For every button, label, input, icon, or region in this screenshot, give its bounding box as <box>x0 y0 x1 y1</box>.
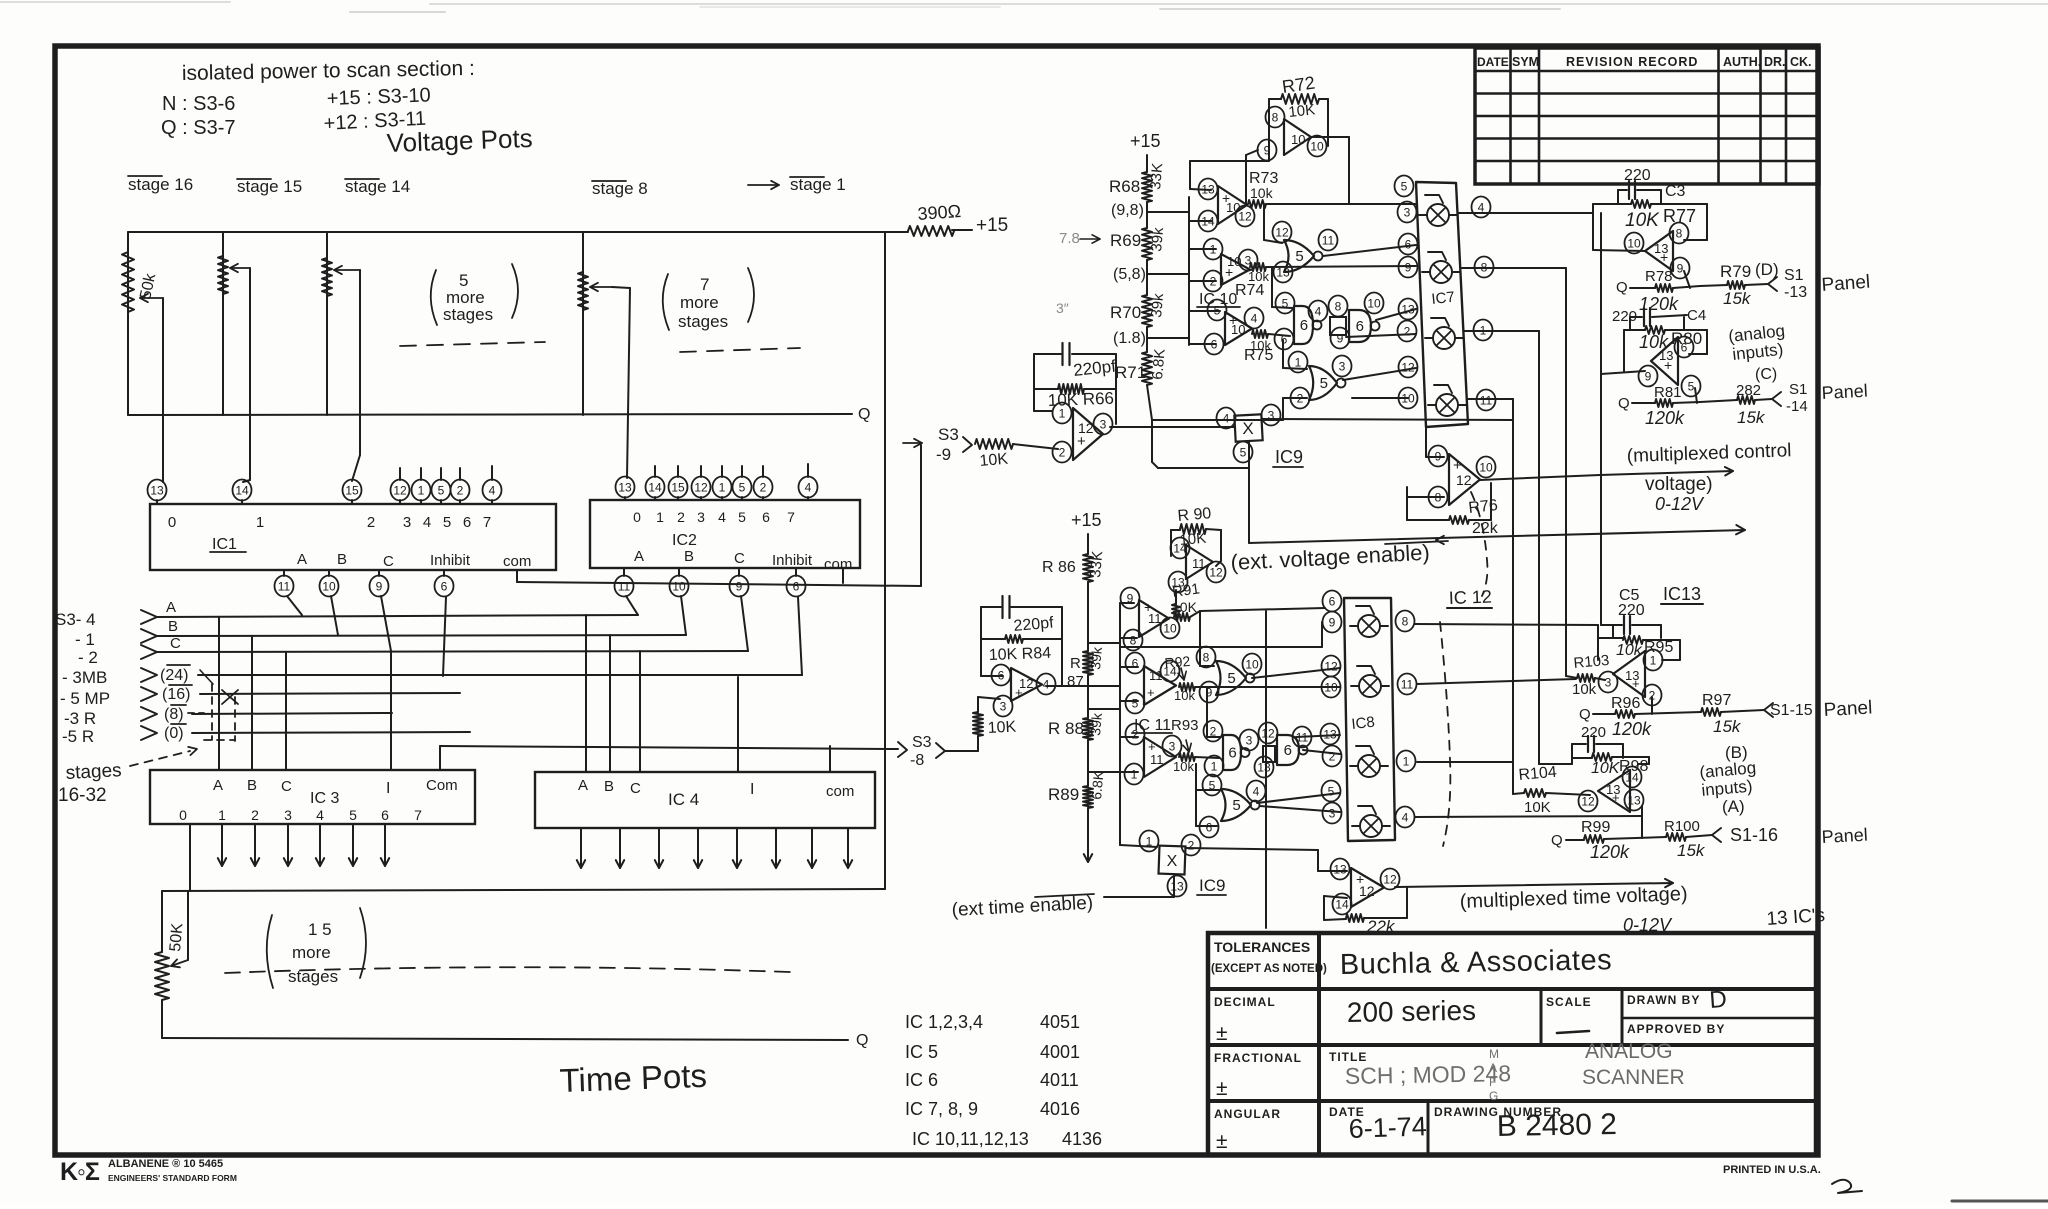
IC1 top pins <box>148 480 167 501</box>
IC9 switch X upper <box>1234 414 1262 441</box>
svg-text:(0): (0) <box>164 725 184 742</box>
svg-text:10K: 10K <box>1625 210 1660 231</box>
svg-text:R96: R96 <box>1611 695 1640 712</box>
svg-text:R74: R74 <box>1235 282 1264 299</box>
svg-text:10k: 10k <box>1250 185 1274 201</box>
svg-text:1: 1 <box>1131 767 1138 781</box>
R71 chain to X loop <box>1151 420 1153 462</box>
svg-text:0: 0 <box>168 514 176 531</box>
svg-text:16-32: 16-32 <box>58 785 107 806</box>
svg-text:more: more <box>680 293 719 312</box>
svg-text:10: 10 <box>1367 296 1381 310</box>
svg-text:R 88: R 88 <box>1048 719 1084 738</box>
svg-text:10K R84: 10K R84 <box>989 645 1052 664</box>
svg-text:15k: 15k <box>1737 408 1766 427</box>
long vertical ext <box>1265 611 1267 928</box>
page mark 2 <box>1832 1180 1862 1193</box>
svg-text:+: + <box>1660 249 1668 265</box>
svg-text:IC 12: IC 12 <box>1448 587 1492 608</box>
bus B <box>157 635 686 636</box>
opamp 11 enable <box>1186 545 1213 579</box>
svg-text:9: 9 <box>1337 331 1344 345</box>
svg-text:ALBANENE ® 10 5465: ALBANENE ® 10 5465 <box>108 1158 223 1170</box>
svg-text:B: B <box>604 778 614 795</box>
NOR gate lower 2 <box>1221 789 1251 821</box>
svg-text:2: 2 <box>457 483 464 497</box>
title block grid <box>1208 987 1816 991</box>
nand out wires <box>1376 309 1416 320</box>
svg-text:12: 12 <box>1261 726 1275 740</box>
+15 top rail <box>128 231 908 233</box>
svg-text:7: 7 <box>483 514 491 531</box>
svg-text:12: 12 <box>694 480 708 494</box>
svg-text:9: 9 <box>1405 260 1412 274</box>
svg-text:7: 7 <box>414 807 422 823</box>
svg-text:(8): (8) <box>164 706 184 723</box>
svg-text:+: + <box>1612 790 1620 805</box>
svg-text:7.8: 7.8 <box>1059 230 1080 247</box>
resistor R72 <box>1269 98 1281 100</box>
svg-text:12: 12 <box>1324 659 1338 673</box>
svg-text:10: 10 <box>1245 657 1259 671</box>
pot stage8 <box>582 232 584 415</box>
svg-text:11: 11 <box>618 579 631 593</box>
opamp 11 first <box>1139 600 1169 637</box>
svg-text:C: C <box>734 550 745 567</box>
svg-text:4: 4 <box>1402 810 1409 824</box>
svg-text:(A): (A) <box>1722 797 1745 816</box>
svg-text:10K: 10K <box>1524 799 1551 816</box>
svg-text:10k: 10k <box>1174 688 1195 703</box>
IC4 output arrows <box>580 828 582 868</box>
pin13 drop <box>1641 806 1643 838</box>
svg-text:3: 3 <box>1169 739 1176 753</box>
opamp 13 A <box>1598 770 1630 812</box>
svg-text:10K: 10K <box>1591 760 1621 777</box>
svg-text:12: 12 <box>1209 565 1223 579</box>
svg-text:4: 4 <box>1223 411 1230 425</box>
svg-text:5: 5 <box>738 509 746 525</box>
svg-text:14: 14 <box>1625 770 1639 784</box>
svg-text:5: 5 <box>1240 445 1247 459</box>
svg-text:stages: stages <box>443 305 493 324</box>
svg-text:12: 12 <box>393 483 407 497</box>
svg-text:C4: C4 <box>1687 307 1706 324</box>
svg-text:11: 11 <box>1401 677 1414 691</box>
svg-text:10: 10 <box>1324 680 1338 694</box>
svg-text:Inhibit: Inhibit <box>430 552 471 569</box>
wire B to IC4 <box>609 635 611 772</box>
svg-text:3″: 3″ <box>1056 300 1069 316</box>
S3-9 riser <box>920 445 922 586</box>
svg-text:22k: 22k <box>1472 520 1499 537</box>
opamp 12 control out <box>1449 454 1480 505</box>
svg-text:9: 9 <box>736 579 743 593</box>
svg-text:I: I <box>750 781 754 798</box>
svg-text:DECIMAL: DECIMAL <box>1214 995 1276 1009</box>
wire IC2 com drop <box>884 232 886 889</box>
10K R84 resistor <box>981 638 1005 640</box>
x2 input wire <box>1120 845 1157 847</box>
svg-text:10: 10 <box>1310 139 1324 153</box>
wire 204 branch down <box>1600 213 1602 625</box>
time rail <box>162 889 885 891</box>
R87 <box>1083 651 1093 675</box>
wire third out <box>1195 757 1219 758</box>
svg-text:I: I <box>386 780 390 797</box>
svg-text:6: 6 <box>1284 742 1292 759</box>
nand lower outs <box>1303 750 1340 754</box>
svg-text:10: 10 <box>322 579 336 593</box>
svg-text:3: 3 <box>697 509 705 525</box>
svg-text:SCH ; MOD 248: SCH ; MOD 248 <box>1345 1060 1512 1089</box>
svg-text:PRINTED IN U.S.A.: PRINTED IN U.S.A. <box>1723 1164 1821 1176</box>
bus 24 <box>198 674 802 676</box>
svg-text:3: 3 <box>1339 359 1346 373</box>
pot stage14 <box>326 232 328 415</box>
svg-text:12: 12 <box>1238 209 1252 223</box>
svg-text:IC 1,2,3,4: IC 1,2,3,4 <box>905 1012 983 1032</box>
svg-text:IC1: IC1 <box>212 536 237 553</box>
svg-text:R: R <box>1070 655 1081 672</box>
gate l1 out <box>1252 668 1340 678</box>
enable line to right <box>1249 530 1745 543</box>
svg-text:6: 6 <box>793 579 800 593</box>
revision record table <box>1475 48 1819 184</box>
IC3 pin0 wire <box>189 824 191 891</box>
IC12 dashed pointer lower <box>1440 622 1450 846</box>
out resistor third <box>1179 753 1195 761</box>
svg-text:+15: +15 <box>976 215 1008 236</box>
IC4 com wire <box>829 746 831 772</box>
svg-text:14: 14 <box>1173 541 1187 555</box>
svg-text:S3: S3 <box>912 734 932 751</box>
svg-text:6: 6 <box>1300 317 1308 334</box>
svg-text:390Ω: 390Ω <box>917 201 962 224</box>
svg-text:IC8: IC8 <box>1351 714 1376 733</box>
svg-text:11: 11 <box>1192 556 1206 571</box>
svg-text:9: 9 <box>1127 591 1134 605</box>
svg-text:A: A <box>297 551 307 568</box>
IC12 dashed pointer upper <box>1471 492 1487 596</box>
R98 loop <box>1648 757 1650 764</box>
svg-text:IC 10,11,12,13: IC 10,11,12,13 <box>912 1129 1029 1149</box>
svg-text:10: 10 <box>1291 132 1305 147</box>
svg-text:4: 4 <box>1251 311 1258 325</box>
svg-text:-9: -9 <box>936 445 951 464</box>
svg-text:R78: R78 <box>1645 268 1673 285</box>
svg-text:9: 9 <box>1645 369 1652 383</box>
time com rail S3-8 <box>440 746 898 749</box>
wire box to pin6 <box>981 675 1003 677</box>
svg-text:10: 10 <box>1627 236 1641 250</box>
IC9 switch X lower <box>1159 846 1186 875</box>
C out resistor <box>1252 330 1268 338</box>
IC8 out wires <box>1415 624 1598 625</box>
svg-text:12: 12 <box>1275 225 1289 239</box>
svg-text:- 3MB: - 3MB <box>62 668 107 687</box>
svg-text:B: B <box>684 548 694 565</box>
svg-text:IC2: IC2 <box>672 532 697 549</box>
50K time pot <box>161 891 163 952</box>
svg-text:4: 4 <box>1315 304 1322 318</box>
svg-text:15k: 15k <box>1723 289 1752 308</box>
svg-text:D: D <box>1709 986 1728 1014</box>
svg-text:-3 R: -3 R <box>64 709 96 728</box>
svg-text:+: + <box>1632 676 1640 691</box>
svg-text:6: 6 <box>1405 237 1412 251</box>
R98 resistor <box>1572 757 1592 759</box>
svg-text:13: 13 <box>1323 727 1337 741</box>
svg-text:13: 13 <box>1401 302 1415 316</box>
wire 24 to IC4 I <box>737 677 739 772</box>
IC2 pin stubs <box>654 466 656 477</box>
IC1 box <box>150 504 556 570</box>
IC8 right pins <box>1396 611 1415 632</box>
svg-text:com: com <box>826 783 854 800</box>
buffer out <box>1311 136 1349 138</box>
R69 <box>1142 228 1152 260</box>
svg-text:10k: 10k <box>1173 759 1194 774</box>
svg-text:5: 5 <box>1214 303 1221 317</box>
opamp 13 C <box>1651 337 1678 385</box>
svg-text:R75: R75 <box>1244 347 1273 364</box>
svg-text:+15 : S3-10: +15 : S3-10 <box>326 84 431 110</box>
svg-text:7: 7 <box>787 509 795 525</box>
svg-text:220: 220 <box>1618 602 1645 619</box>
svg-text:A: A <box>213 777 223 794</box>
svg-text:9: 9 <box>376 579 383 593</box>
svg-text:R99: R99 <box>1581 819 1610 836</box>
svg-text:- 2: - 2 <box>78 648 98 667</box>
svg-text:R95: R95 <box>1644 639 1673 656</box>
R70 <box>1142 295 1152 327</box>
svg-text:APPROVED BY: APPROVED BY <box>1627 1022 1725 1036</box>
svg-text:1: 1 <box>1210 242 1217 256</box>
x marks <box>222 690 238 704</box>
svg-text:220: 220 <box>1624 167 1651 184</box>
svg-text:1: 1 <box>719 480 726 494</box>
wire to IC7 pin10 <box>1352 397 1408 399</box>
svg-text:G: G <box>1489 1089 1498 1103</box>
time pot bottom wire Q <box>162 1038 848 1040</box>
svg-text:14: 14 <box>1335 897 1349 911</box>
svg-text:5: 5 <box>1132 696 1139 710</box>
svg-text:14: 14 <box>235 483 249 497</box>
dashed continuation 2 <box>680 348 800 352</box>
wire R66 to pin1 <box>1034 410 1052 412</box>
IC7 box <box>1416 182 1468 427</box>
svg-text:3: 3 <box>1329 806 1336 820</box>
svg-text:S3: S3 <box>938 425 959 444</box>
svg-text:3: 3 <box>1404 205 1411 219</box>
svg-text:S3- 4: S3- 4 <box>55 610 96 629</box>
svg-text:10K: 10K <box>1288 101 1316 121</box>
tap3 lower <box>1088 771 1120 773</box>
svg-text:S1-16: S1-16 <box>1730 825 1778 845</box>
svg-text:IC 3: IC 3 <box>310 790 339 807</box>
svg-text:13: 13 <box>1171 575 1185 589</box>
chain bottom arrow <box>1087 808 1089 848</box>
svg-text:22k: 22k <box>1366 917 1396 936</box>
svg-text:13: 13 <box>1257 760 1271 774</box>
svg-text:5: 5 <box>1232 797 1240 814</box>
nor l2 outs <box>1257 793 1340 803</box>
wire C to IC4 <box>639 651 641 772</box>
svg-text:4: 4 <box>316 807 324 823</box>
svg-text:15k: 15k <box>1713 717 1742 736</box>
IC3 com wire <box>439 746 441 770</box>
svg-text:33K: 33K <box>1087 550 1106 578</box>
svg-text:5: 5 <box>1227 670 1235 687</box>
wire stage8 wiper <box>612 287 630 288</box>
svg-text:13: 13 <box>1201 182 1215 196</box>
svg-text:6: 6 <box>1681 340 1688 354</box>
pot stage15 <box>222 232 224 415</box>
svg-text:Q: Q <box>1616 279 1628 296</box>
opamp 12 time sum <box>1011 668 1042 701</box>
svg-text:0-12V: 0-12V <box>1655 494 1705 514</box>
svg-text:6.8K: 6.8K <box>1149 348 1169 380</box>
svg-text:±: ± <box>1216 1130 1228 1153</box>
IC7 output wires <box>1458 212 1593 214</box>
IC2 com wire <box>842 568 844 583</box>
svg-text:12: 12 <box>1078 420 1094 436</box>
opamp 12 voltage sum <box>1073 408 1103 460</box>
R66 loop verticals <box>1033 354 1035 411</box>
svg-text:8: 8 <box>1130 633 1137 647</box>
tap1 lower <box>1088 642 1120 644</box>
title block outer <box>1208 933 1816 1155</box>
voltage com rail <box>517 582 921 586</box>
svg-text:X: X <box>1242 419 1253 438</box>
svg-text:4016: 4016 <box>1040 1099 1080 1119</box>
IC7 switches <box>1427 204 1449 226</box>
svg-text:A: A <box>166 599 176 616</box>
wire stage14 wiper <box>359 270 361 455</box>
svg-text:2: 2 <box>1329 749 1336 763</box>
svg-text:11: 11 <box>1480 393 1493 407</box>
opamp out to bus <box>1062 685 1120 687</box>
svg-text:SYM: SYM <box>1512 55 1539 69</box>
bus C <box>157 651 748 652</box>
svg-text:IC 4: IC 4 <box>668 790 699 809</box>
svg-text:6: 6 <box>463 514 471 531</box>
capacitor 220pf upper <box>1034 353 1061 355</box>
svg-text:1: 1 <box>256 514 264 531</box>
svg-text:C: C <box>383 553 394 570</box>
svg-text:N : S3-6: N : S3-6 <box>162 93 235 115</box>
svg-text:4: 4 <box>489 483 496 497</box>
svg-text:4: 4 <box>805 480 812 494</box>
svg-text:33K: 33K <box>1147 162 1166 190</box>
svg-text:+15: +15 <box>1130 131 1161 151</box>
svg-text:Time Pots: Time Pots <box>559 1057 708 1099</box>
opamp 11 second <box>1144 666 1176 705</box>
NOR gate upper 2 <box>1309 366 1337 400</box>
svg-text:IC7: IC7 <box>1431 289 1456 308</box>
svg-text:A: A <box>634 548 644 565</box>
svg-text:IC13: IC13 <box>1663 584 1701 604</box>
svg-text:15: 15 <box>345 483 359 497</box>
svg-text:10K R66: 10K R66 <box>1047 389 1114 410</box>
IC1 bottom pins <box>275 576 294 597</box>
bus 8 <box>192 713 392 714</box>
pin5 drop <box>1695 388 1697 403</box>
svg-text:8: 8 <box>1676 226 1683 240</box>
svg-text:3: 3 <box>1100 417 1107 431</box>
svg-text:10k: 10k <box>1572 681 1597 698</box>
wire ic8 pin9 link <box>1321 622 1323 647</box>
svg-text:1: 1 <box>418 483 425 497</box>
wire 13 down R91 <box>1175 590 1177 604</box>
IC1 pin stubs <box>399 468 401 480</box>
svg-text:com: com <box>824 556 852 573</box>
x2 pin13 wire <box>1173 876 1175 897</box>
C5 cap box <box>1613 624 1622 626</box>
svg-text:DR.: DR. <box>1764 55 1786 69</box>
opamp IC10 C <box>1225 312 1252 345</box>
svg-text:120k: 120k <box>1590 842 1630 862</box>
svg-text:R93: R93 <box>1171 717 1199 734</box>
R88 <box>1083 718 1093 740</box>
wire B out <box>1266 266 1416 267</box>
opamp 13 D <box>1645 231 1673 271</box>
R71 <box>1142 352 1152 385</box>
multiplexed control voltage arrow <box>1480 475 1600 480</box>
svg-text:R68: R68 <box>1109 177 1140 196</box>
svg-text:R 90: R 90 <box>1177 505 1212 525</box>
svg-text:Q: Q <box>1551 832 1563 849</box>
svg-text:14: 14 <box>648 480 662 494</box>
svg-text:(EXCEPT AS NOTED): (EXCEPT AS NOTED) <box>1211 963 1327 975</box>
resistor 10K S3-9 <box>975 439 1013 449</box>
svg-text:4: 4 <box>1043 677 1050 691</box>
opamp 12 time out <box>1351 868 1384 907</box>
svg-text:1: 1 <box>218 807 226 823</box>
10K input resistor time <box>977 736 979 751</box>
wire IC7 common to pin9 <box>1425 427 1427 457</box>
svg-text:com: com <box>503 553 531 570</box>
resistor 390 ohm <box>908 226 954 236</box>
X out wire to right <box>1262 419 1513 420</box>
svg-text:13: 13 <box>1170 879 1184 893</box>
svg-text:39k: 39k <box>1087 645 1105 670</box>
dashed expansion box <box>211 684 213 740</box>
wire stage15 wiper <box>249 268 251 480</box>
input bus upper <box>1188 197 1190 345</box>
svg-text:REVISION RECORD: REVISION RECORD <box>1566 55 1698 69</box>
svg-text:2: 2 <box>251 807 259 823</box>
svg-text:R97: R97 <box>1702 692 1731 709</box>
svg-text:-5 R: -5 R <box>62 727 94 746</box>
svg-text:DRAWN BY: DRAWN BY <box>1627 993 1700 1007</box>
svg-text:13 IC's: 13 IC's <box>1766 905 1826 930</box>
svg-text:IC 5: IC 5 <box>905 1042 938 1062</box>
svg-text:2: 2 <box>1404 324 1411 338</box>
svg-text:12: 12 <box>1456 472 1472 488</box>
svg-text:3: 3 <box>1605 675 1612 689</box>
wire C out <box>1268 334 1290 336</box>
svg-text:6-1-74: 6-1-74 <box>1348 1111 1427 1144</box>
svg-text:DATE: DATE <box>1477 55 1509 69</box>
wire B to IC3 <box>251 636 253 770</box>
svg-text:39k: 39k <box>1087 711 1105 736</box>
nor l2 inputs <box>1195 764 1197 790</box>
svg-text:voltage): voltage) <box>1645 474 1713 495</box>
svg-text:10: 10 <box>1163 621 1177 635</box>
svg-text:B: B <box>247 777 257 794</box>
